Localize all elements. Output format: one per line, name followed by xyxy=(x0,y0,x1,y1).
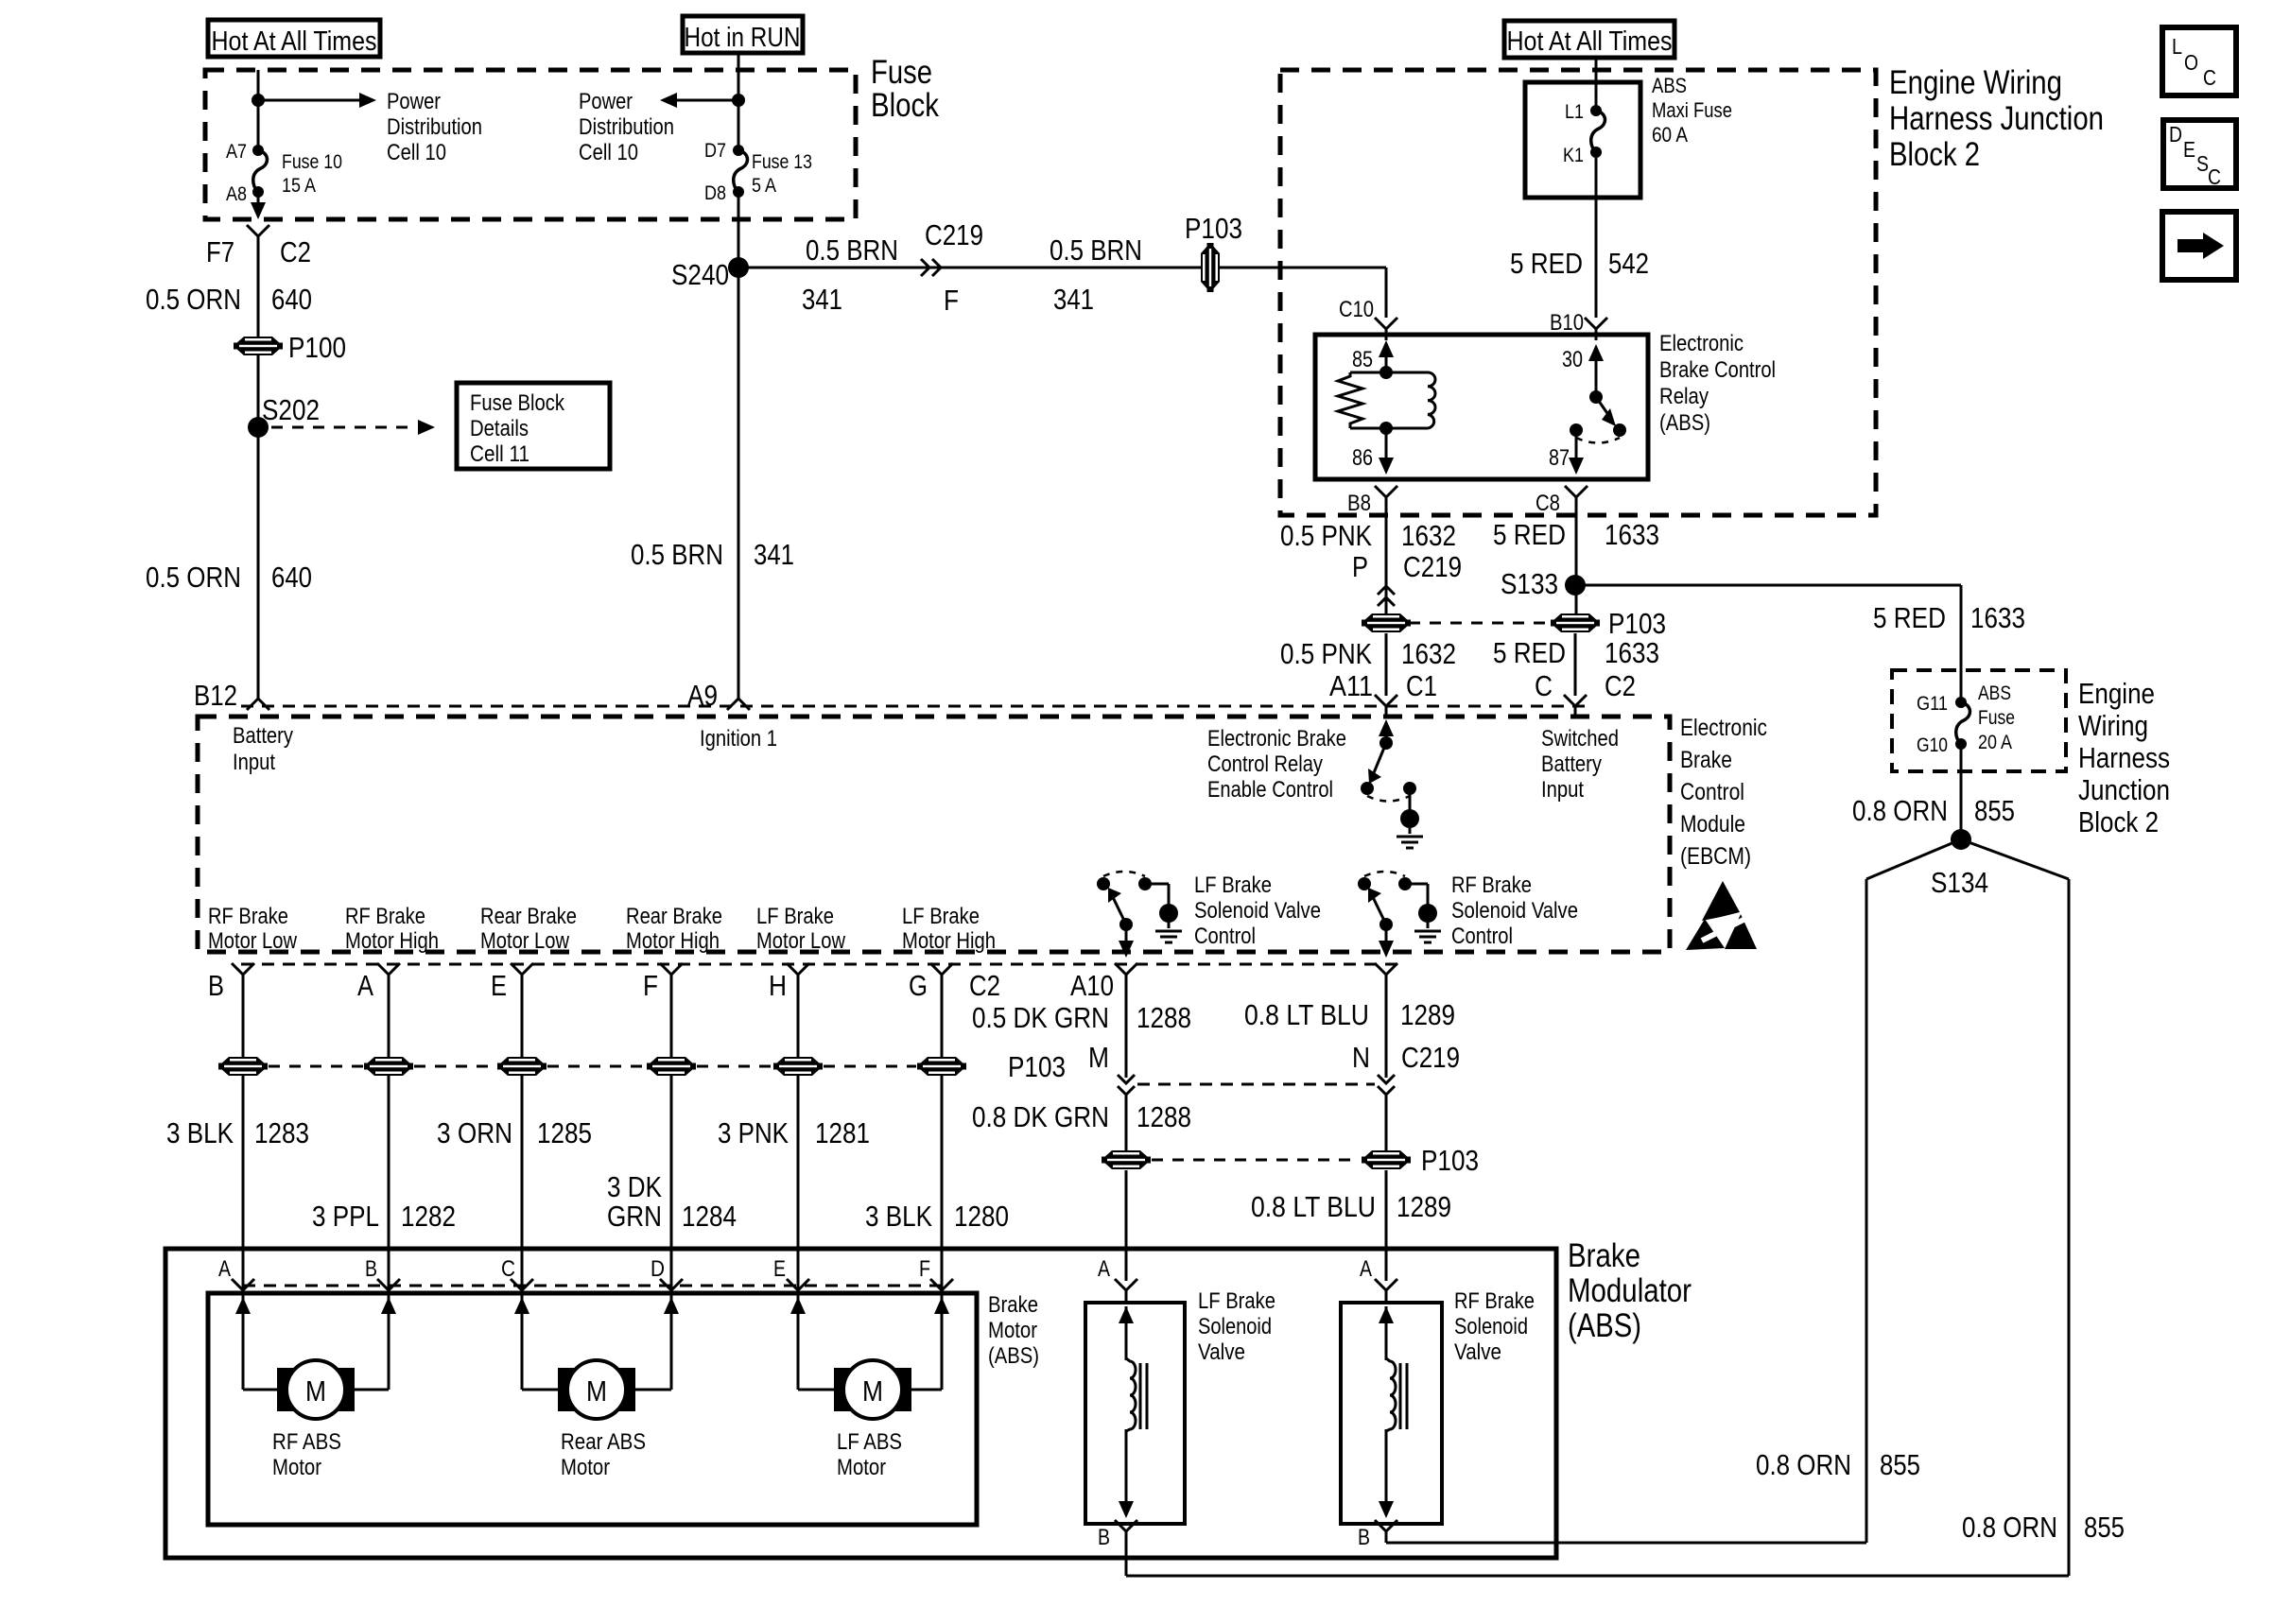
svg-text:A10: A10 xyxy=(1070,969,1114,1002)
svg-text:RF Brake: RF Brake xyxy=(208,904,288,929)
svg-text:LF ABS: LF ABS xyxy=(837,1429,902,1455)
svg-text:C2: C2 xyxy=(280,235,311,268)
svg-text:C1: C1 xyxy=(1406,669,1437,702)
svg-text:(ABS): (ABS) xyxy=(988,1343,1039,1369)
svg-text:E: E xyxy=(773,1256,786,1282)
svg-text:0.5 PNK: 0.5 PNK xyxy=(1280,637,1372,670)
svg-text:0.8 ORN: 0.8 ORN xyxy=(1962,1511,2057,1544)
svg-text:Motor Low: Motor Low xyxy=(208,928,298,954)
svg-text:C219: C219 xyxy=(1403,550,1462,583)
svg-text:RF ABS: RF ABS xyxy=(272,1429,341,1455)
svg-text:Brake: Brake xyxy=(1680,747,1732,773)
svg-text:0.8 LT BLU: 0.8 LT BLU xyxy=(1244,998,1369,1031)
svg-text:Solenoid Valve: Solenoid Valve xyxy=(1451,898,1578,924)
svg-text:Electronic: Electronic xyxy=(1659,331,1744,356)
svg-text:0.5 BRN: 0.5 BRN xyxy=(1050,233,1142,267)
svg-text:D: D xyxy=(651,1256,665,1282)
svg-text:Hot At All Times: Hot At All Times xyxy=(1507,26,1673,57)
svg-text:D: D xyxy=(2169,122,2182,147)
svg-text:Valve: Valve xyxy=(1198,1339,1245,1365)
svg-text:341: 341 xyxy=(754,538,794,571)
svg-text:Control: Control xyxy=(1194,924,1256,949)
svg-text:C: C xyxy=(1535,669,1553,702)
svg-text:Fuse 10: Fuse 10 xyxy=(282,151,342,173)
svg-text:1289: 1289 xyxy=(1397,1190,1451,1223)
svg-text:Block: Block xyxy=(871,87,939,124)
svg-text:C: C xyxy=(501,1256,515,1282)
svg-text:(ABS): (ABS) xyxy=(1568,1307,1641,1344)
svg-text:855: 855 xyxy=(1974,794,2015,827)
svg-text:Cell 10: Cell 10 xyxy=(579,140,638,165)
svg-text:ABS: ABS xyxy=(1978,682,2011,704)
svg-text:Rear Brake: Rear Brake xyxy=(626,904,722,929)
svg-text:F: F xyxy=(643,969,658,1002)
svg-text:1288: 1288 xyxy=(1136,1100,1191,1133)
svg-text:A: A xyxy=(357,969,373,1002)
svg-text:0.8 ORN: 0.8 ORN xyxy=(1852,794,1948,827)
svg-text:Harness Junction: Harness Junction xyxy=(1889,100,2104,137)
svg-text:RF Brake: RF Brake xyxy=(1454,1288,1535,1314)
svg-text:B12: B12 xyxy=(194,679,237,712)
svg-text:A7: A7 xyxy=(226,141,247,163)
svg-text:Power: Power xyxy=(579,89,633,114)
svg-text:341: 341 xyxy=(802,283,842,316)
svg-text:Details: Details xyxy=(470,416,529,441)
svg-text:3 BLK: 3 BLK xyxy=(166,1116,234,1149)
svg-text:E: E xyxy=(491,969,507,1002)
svg-text:Motor High: Motor High xyxy=(626,928,720,954)
svg-text:60 A: 60 A xyxy=(1652,123,1688,147)
svg-text:A: A xyxy=(1098,1256,1110,1282)
svg-text:RF Brake: RF Brake xyxy=(1451,872,1532,898)
svg-text:3 PNK: 3 PNK xyxy=(718,1116,789,1149)
svg-text:B: B xyxy=(208,969,224,1002)
svg-text:P100: P100 xyxy=(288,331,346,364)
svg-text:5 RED: 5 RED xyxy=(1493,636,1566,669)
svg-text:1281: 1281 xyxy=(815,1116,870,1149)
svg-text:Enable Control: Enable Control xyxy=(1207,777,1333,803)
svg-text:Distribution: Distribution xyxy=(579,114,674,140)
svg-text:3 ORN: 3 ORN xyxy=(437,1116,512,1149)
svg-text:Relay: Relay xyxy=(1659,384,1709,409)
svg-text:Cell 10: Cell 10 xyxy=(387,140,446,165)
svg-text:341: 341 xyxy=(1053,283,1094,316)
svg-text:1282: 1282 xyxy=(401,1200,456,1233)
svg-text:C219: C219 xyxy=(925,218,983,251)
svg-text:85: 85 xyxy=(1352,347,1373,372)
svg-text:0.5 ORN: 0.5 ORN xyxy=(146,283,241,316)
svg-text:N: N xyxy=(1352,1041,1370,1074)
svg-text:Power: Power xyxy=(387,89,441,114)
svg-text:K1: K1 xyxy=(1563,145,1584,166)
svg-text:Engine Wiring: Engine Wiring xyxy=(1889,64,2062,101)
svg-text:Control Relay: Control Relay xyxy=(1207,752,1323,777)
svg-text:S133: S133 xyxy=(1501,567,1558,600)
svg-text:L1: L1 xyxy=(1565,101,1584,123)
svg-text:5 RED: 5 RED xyxy=(1493,518,1566,551)
svg-text:855: 855 xyxy=(1880,1448,1920,1481)
svg-text:0.5 ORN: 0.5 ORN xyxy=(146,561,241,594)
svg-text:Block 2: Block 2 xyxy=(1889,136,1980,173)
svg-text:0.5 DK GRN: 0.5 DK GRN xyxy=(972,1001,1109,1034)
svg-text:Fuse 13: Fuse 13 xyxy=(752,151,812,173)
svg-text:A8: A8 xyxy=(226,183,247,205)
svg-text:C8: C8 xyxy=(1536,491,1560,516)
svg-text:Battery: Battery xyxy=(1541,752,1602,777)
svg-text:1633: 1633 xyxy=(1605,636,1659,669)
svg-text:B8: B8 xyxy=(1347,491,1371,516)
svg-text:P103: P103 xyxy=(1185,212,1242,245)
svg-text:1283: 1283 xyxy=(254,1116,309,1149)
svg-text:Electronic Brake: Electronic Brake xyxy=(1207,726,1346,752)
svg-text:LF Brake: LF Brake xyxy=(756,904,834,929)
svg-text:Cell 11: Cell 11 xyxy=(470,441,529,467)
svg-text:20 A: 20 A xyxy=(1978,732,2012,753)
svg-text:1632: 1632 xyxy=(1401,637,1456,670)
svg-text:15 A: 15 A xyxy=(282,175,316,197)
svg-text:Motor: Motor xyxy=(561,1455,610,1480)
svg-text:Switched: Switched xyxy=(1541,726,1619,752)
svg-text:1284: 1284 xyxy=(682,1200,737,1233)
svg-text:M: M xyxy=(586,1374,607,1408)
svg-text:M: M xyxy=(862,1374,883,1408)
svg-text:(ABS): (ABS) xyxy=(1659,410,1710,436)
svg-text:Wiring: Wiring xyxy=(2078,709,2148,742)
svg-text:0.5 BRN: 0.5 BRN xyxy=(806,233,898,267)
svg-text:Motor: Motor xyxy=(988,1318,1037,1343)
svg-text:G10: G10 xyxy=(1917,734,1948,756)
svg-text:5 RED: 5 RED xyxy=(1510,247,1583,280)
svg-text:A11: A11 xyxy=(1329,669,1373,702)
svg-text:1280: 1280 xyxy=(954,1200,1009,1233)
svg-text:Maxi Fuse: Maxi Fuse xyxy=(1652,98,1732,122)
svg-text:Solenoid Valve: Solenoid Valve xyxy=(1194,898,1321,924)
svg-text:GRN: GRN xyxy=(607,1200,662,1233)
svg-text:C: C xyxy=(2208,164,2221,189)
svg-text:A: A xyxy=(1360,1256,1372,1282)
svg-text:Input: Input xyxy=(233,750,275,775)
svg-text:Brake Control: Brake Control xyxy=(1659,357,1776,383)
svg-text:LF Brake: LF Brake xyxy=(1198,1288,1275,1314)
svg-text:Battery: Battery xyxy=(233,723,293,749)
svg-text:542: 542 xyxy=(1608,247,1649,280)
svg-text:B: B xyxy=(1358,1525,1370,1550)
svg-text:Motor: Motor xyxy=(272,1455,321,1480)
svg-text:Solenoid: Solenoid xyxy=(1454,1314,1528,1339)
svg-text:1289: 1289 xyxy=(1400,998,1455,1031)
svg-text:B: B xyxy=(365,1256,377,1282)
svg-text:C2: C2 xyxy=(969,969,1000,1002)
svg-text:RF Brake: RF Brake xyxy=(345,904,425,929)
svg-text:Distribution: Distribution xyxy=(387,114,482,140)
svg-text:O: O xyxy=(2184,50,2198,75)
svg-text:Motor Low: Motor Low xyxy=(756,928,846,954)
svg-text:H: H xyxy=(769,969,787,1002)
svg-text:D8: D8 xyxy=(704,182,726,204)
svg-text:Block 2: Block 2 xyxy=(2078,805,2159,838)
svg-text:Brake: Brake xyxy=(1568,1237,1640,1274)
svg-text:1285: 1285 xyxy=(537,1116,592,1149)
svg-text:0.5 BRN: 0.5 BRN xyxy=(631,538,723,571)
svg-text:B10: B10 xyxy=(1550,310,1584,336)
svg-text:P: P xyxy=(1352,550,1368,583)
svg-text:C219: C219 xyxy=(1401,1041,1460,1074)
svg-text:1633: 1633 xyxy=(1605,518,1659,551)
svg-text:0.8 DK GRN: 0.8 DK GRN xyxy=(972,1100,1109,1133)
svg-text:C: C xyxy=(2203,65,2216,90)
svg-text:Input: Input xyxy=(1541,777,1584,803)
svg-text:Rear Brake: Rear Brake xyxy=(480,904,577,929)
svg-text:1288: 1288 xyxy=(1136,1001,1191,1034)
svg-text:D7: D7 xyxy=(704,140,726,162)
svg-text:S202: S202 xyxy=(262,393,320,426)
svg-text:C2: C2 xyxy=(1605,669,1636,702)
svg-text:0.5 PNK: 0.5 PNK xyxy=(1280,519,1372,552)
svg-text:Engine: Engine xyxy=(2078,677,2155,710)
svg-text:Module: Module xyxy=(1680,811,1745,838)
svg-text:0.8 ORN: 0.8 ORN xyxy=(1756,1448,1851,1481)
svg-text:Motor High: Motor High xyxy=(902,928,996,954)
svg-text:86: 86 xyxy=(1352,445,1373,471)
svg-text:Modulator: Modulator xyxy=(1568,1272,1692,1309)
svg-text:3 PPL: 3 PPL xyxy=(312,1200,379,1233)
svg-text:Motor: Motor xyxy=(837,1455,886,1480)
svg-text:LF Brake: LF Brake xyxy=(1194,872,1272,898)
svg-text:M: M xyxy=(1088,1041,1109,1074)
svg-text:Valve: Valve xyxy=(1454,1339,1501,1365)
svg-text:Solenoid: Solenoid xyxy=(1198,1314,1272,1339)
svg-text:Ignition 1: Ignition 1 xyxy=(700,726,777,752)
svg-text:F: F xyxy=(944,284,959,317)
svg-text:S134: S134 xyxy=(1931,866,1988,899)
svg-text:640: 640 xyxy=(271,283,312,316)
svg-text:P103: P103 xyxy=(1421,1144,1479,1177)
svg-text:5 A: 5 A xyxy=(752,175,776,197)
svg-text:B: B xyxy=(1098,1525,1110,1550)
svg-text:Motor Low: Motor Low xyxy=(480,928,570,954)
svg-text:G: G xyxy=(909,969,928,1002)
svg-text:LF Brake: LF Brake xyxy=(902,904,980,929)
svg-text:Rear ABS: Rear ABS xyxy=(561,1429,646,1455)
svg-text:1632: 1632 xyxy=(1401,519,1456,552)
svg-text:G11: G11 xyxy=(1917,693,1948,715)
svg-text:Fuse Block: Fuse Block xyxy=(470,390,565,416)
svg-text:640: 640 xyxy=(271,561,312,594)
svg-text:M: M xyxy=(305,1374,326,1408)
svg-text:Electronic: Electronic xyxy=(1680,715,1767,741)
svg-text:Brake: Brake xyxy=(988,1292,1038,1318)
svg-text:5 RED: 5 RED xyxy=(1873,601,1946,634)
svg-text:F7: F7 xyxy=(206,235,234,268)
svg-text:3 BLK: 3 BLK xyxy=(865,1200,932,1233)
svg-text:P103: P103 xyxy=(1608,607,1666,640)
svg-text:Harness: Harness xyxy=(2078,741,2170,774)
svg-text:Control: Control xyxy=(1451,924,1513,949)
svg-text:30: 30 xyxy=(1562,347,1583,372)
svg-text:0.8 LT BLU: 0.8 LT BLU xyxy=(1251,1190,1376,1223)
svg-text:1633: 1633 xyxy=(1970,601,2025,634)
svg-text:Control: Control xyxy=(1680,779,1744,805)
svg-text:S240: S240 xyxy=(671,258,729,291)
svg-text:A: A xyxy=(218,1256,231,1282)
svg-text:Junction: Junction xyxy=(2078,773,2170,806)
svg-text:L: L xyxy=(2172,34,2182,59)
svg-text:(EBCM): (EBCM) xyxy=(1680,843,1751,870)
svg-text:Fuse: Fuse xyxy=(1978,707,2015,729)
svg-text:E: E xyxy=(2183,137,2195,162)
svg-text:Hot in RUN: Hot in RUN xyxy=(685,23,801,53)
svg-text:Fuse: Fuse xyxy=(871,54,932,91)
svg-text:P103: P103 xyxy=(1008,1050,1066,1083)
svg-text:Hot At All Times: Hot At All Times xyxy=(212,26,377,57)
svg-text:3 DK: 3 DK xyxy=(607,1170,662,1203)
svg-text:F: F xyxy=(919,1256,930,1282)
svg-text:C10: C10 xyxy=(1339,297,1374,322)
svg-text:855: 855 xyxy=(2084,1511,2125,1544)
svg-text:Motor High: Motor High xyxy=(345,928,439,954)
svg-text:87: 87 xyxy=(1549,445,1570,471)
svg-text:ABS: ABS xyxy=(1652,74,1687,97)
